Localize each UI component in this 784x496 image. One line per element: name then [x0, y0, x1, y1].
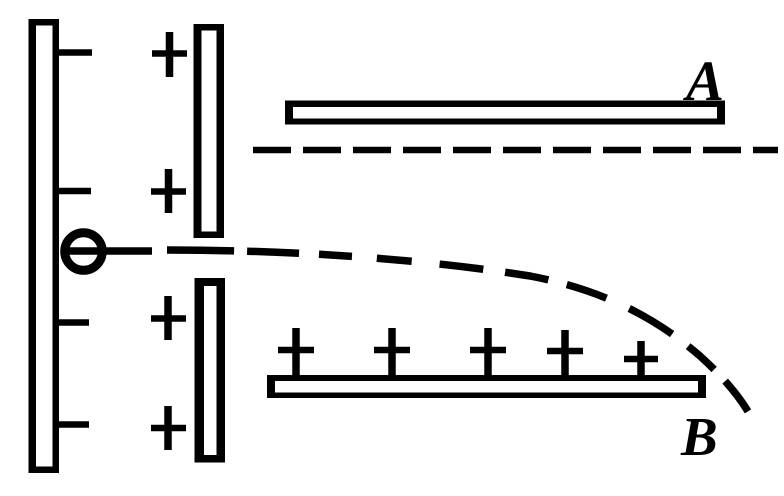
plus sign B2 [374, 328, 410, 377]
minus tick 4 on left plate [56, 421, 89, 428]
minus tick 3 on left plate [56, 319, 89, 326]
particle bar / beam start [65, 247, 152, 255]
plus sign 3 [151, 296, 186, 340]
svg-text:A: A [683, 50, 724, 113]
plus sign 1 (accel gap top) [152, 32, 187, 77]
charged particle (circle with bar) [65, 233, 103, 271]
plus sign 2 [151, 169, 186, 213]
plus sign 4 [151, 406, 186, 450]
plus sign B3 [470, 328, 506, 377]
left plate (cathode) [29, 19, 60, 473]
minus tick 2 on left plate [56, 188, 91, 195]
svg-text:B: B [680, 406, 718, 467]
minus tick 1 on left plate [56, 49, 92, 56]
dashed trajectory curve [167, 250, 753, 420]
plate B [267, 375, 706, 398]
dashed axis line under plate A [253, 147, 778, 154]
plus sign B5 [624, 341, 658, 379]
plus sign B1 [278, 328, 314, 377]
top middle plate (anode upper) [194, 24, 225, 238]
bottom middle plate (anode lower) [195, 278, 226, 463]
plate A [285, 101, 725, 125]
plus sign B4 [547, 330, 583, 377]
